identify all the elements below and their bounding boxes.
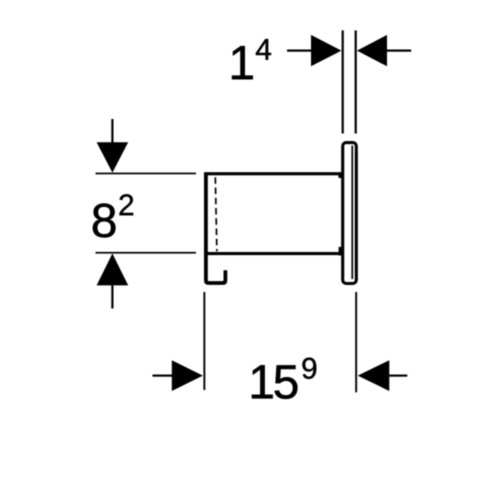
part: tube top line bbox=[204, 172, 342, 175]
left dim: top arrowhead (points down) bbox=[97, 142, 129, 172]
part: flange outline (rounded) bbox=[343, 143, 357, 284]
top dim: left arrowhead (points right) bbox=[311, 35, 341, 66]
part: tube bottom line bbox=[204, 252, 342, 255]
bottom dim: right extension line bbox=[355, 292, 357, 392]
top dim: left extension line (flange front) bbox=[342, 30, 344, 133]
top dim: right extension line (flange back) bbox=[355, 30, 357, 133]
part: left edge and bottom hook bbox=[206, 172, 226, 283]
superscript 9 of dimension 15.9 (bottom) bbox=[302, 358, 316, 379]
digit 5 of dimension 15.9 (bottom) bbox=[275, 365, 298, 398]
left dim: bottom tail line bbox=[111, 285, 113, 308]
digit 1 of dimension 15.9 (bottom) bbox=[252, 365, 273, 398]
bottom dim: left tail line bbox=[153, 375, 173, 377]
digit 8 of dimension 8.2 (left) bbox=[93, 203, 116, 237]
left dim: bottom arrowhead (points up) bbox=[97, 254, 129, 286]
left dim: bottom extension line bbox=[96, 252, 197, 254]
superscript 2 of dimension 8.2 (left) bbox=[120, 194, 134, 215]
bottom dim: left extension line bbox=[203, 292, 205, 390]
bottom dim: right tail line bbox=[389, 375, 407, 377]
bottom dim: right arrowhead (points left) bbox=[358, 360, 390, 391]
part: small tick at top line / flange junction bbox=[339, 173, 342, 179]
left dim: top tail line bbox=[111, 119, 113, 143]
top dim: right arrowhead (points left) bbox=[357, 35, 387, 66]
bottom dim: left arrowhead (points right) bbox=[172, 360, 203, 391]
part: small tick at bottom line / flange junction bbox=[339, 247, 342, 256]
digit 1 of dimension 1.4 (top) bbox=[232, 46, 253, 79]
part: hidden (dashed) line inside tube bbox=[215, 177, 217, 251]
part: flange inner face line bbox=[351, 146, 353, 280]
top dim: right tail line bbox=[387, 50, 411, 52]
superscript 4 of dimension 1.4 (top) bbox=[256, 39, 271, 60]
left dim: top extension line bbox=[96, 173, 197, 175]
top dim: left tail line bbox=[287, 50, 312, 52]
